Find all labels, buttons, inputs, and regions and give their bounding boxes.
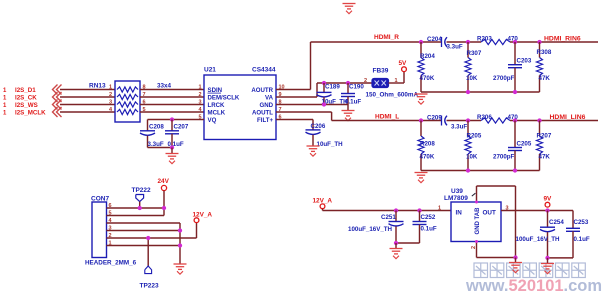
resistor R308 [537,42,552,92]
junction node R307 top [466,40,470,44]
U21 pin numbers [198,84,284,120]
capacitor C251 [348,211,404,244]
wire 12V_A to U39 pin 1 [323,209,452,211]
wire R206 to output [510,120,598,122]
net label HDMI_RIN6 [544,36,581,43]
svg-text:3.3uF: 3.3uF [447,44,463,51]
svg-text:R308: R308 [537,49,552,56]
power 12V_A (regulator input) [313,197,333,208]
junction trunk pin 3 [178,228,182,232]
junction node C203 top [513,40,517,44]
svg-text:3: 3 [198,99,201,105]
svg-text:I2S_CK: I2S_CK [15,94,37,101]
svg-text:24V: 24V [158,178,170,185]
power 12V_A (CON7) [193,212,213,223]
junction C251 top [394,208,398,212]
power 5V [399,60,408,72]
junction node R207 top [537,118,541,122]
svg-text:3.3uF: 3.3uF [148,141,164,148]
junction 9V / C254 top [545,208,549,212]
wire R203 to output [510,41,598,43]
svg-text:9V: 9V [544,195,553,202]
svg-text:R207: R207 [537,133,552,140]
IC U39 LM7809 [444,188,501,242]
svg-text:C207: C207 [174,123,189,130]
svg-text:I2S_D1: I2S_D1 [15,87,36,94]
junction C190 top [346,81,350,85]
svg-text:1: 1 [109,84,112,90]
svg-text:HDMI_L: HDMI_L [375,114,399,121]
wire CON7 pin 4 [107,222,181,224]
junction 24V line on pin 6 wire [162,206,166,210]
port I2S_WS [3,100,62,110]
port I2S_CK [3,92,62,102]
capacitor C209 [427,115,467,131]
svg-text:5V: 5V [399,60,408,67]
svg-text:GND: GND [259,102,273,109]
junction rail [466,168,470,172]
ground (filter rail) [415,173,428,183]
capacitor C204 [427,36,463,51]
junction node C205 top [513,118,517,122]
ground (C206) [307,146,320,156]
resistor R307 [465,42,482,92]
ground (filter rail) [415,94,428,104]
svg-text:LM7809: LM7809 [444,195,468,202]
svg-text:C208: C208 [149,123,164,130]
resistor R208 [418,121,435,171]
junction node R205 top [466,118,470,122]
resistor network RN13 [89,81,172,122]
svg-text:10K: 10K [466,153,478,160]
wire RN13 pin 7 to U21 pin 2 [140,96,204,98]
resistor R203 [477,36,518,45]
svg-text:HDMI_LIN6: HDMI_LIN6 [550,114,586,121]
svg-text:C205: C205 [517,141,532,148]
capacitor C206 [306,120,344,149]
svg-text:R205: R205 [467,133,482,140]
svg-text:2700pF: 2700pF [493,153,515,160]
svg-text:I2S_WS: I2S_WS [15,102,38,109]
wire ground trunk [179,223,181,264]
svg-text:HDMI_RIN6: HDMI_RIN6 [544,36,581,43]
svg-text:VQ: VQ [208,117,217,124]
net label HDMI_LIN6 [550,114,586,121]
ground (C251/C252) [390,243,403,259]
wire U39 pin 2 to ground [477,242,516,258]
svg-text:IN: IN [456,209,463,216]
IC U21 CS4344 [204,67,276,140]
junction on VQ wire [170,117,174,121]
wire U39 tab to ground [477,186,516,258]
capacitor C190 [341,83,364,105]
svg-text:TP223: TP223 [140,283,160,290]
net label HDMI_R [374,34,399,41]
svg-text:2: 2 [109,92,112,98]
wire AOUTR (U21 pin 10) to HDMI_R [276,42,421,90]
junction rail [513,90,517,94]
svg-text:www.520101.com: www.520101.com [465,277,602,293]
resistor R206 [477,114,518,123]
svg-text:0.1uF: 0.1uF [168,141,184,148]
svg-text:2700pF: 2700pF [493,75,515,82]
wire RN13 pin 6 to U21 pin 3 [140,104,204,106]
wire RN13 pin 5 to U21 pin 4 [140,111,204,113]
svg-text:OUT: OUT [483,209,496,216]
capacitor C254 [516,211,565,258]
junction input node R204 [419,40,423,44]
wire C204 to R203 [447,41,482,43]
junction C252 top [417,208,421,212]
svg-text:470K: 470K [420,75,435,82]
wire RN13 pin 8 to U21 pin 1 [140,89,204,91]
svg-text:GND TAB: GND TAB [475,207,481,235]
wire input node to C209 [421,120,442,122]
svg-text:R307: R307 [467,50,482,57]
junction C189 bottom [322,102,326,106]
svg-text:C209: C209 [427,115,442,122]
junction node R308 top [537,40,541,44]
wire VA (U21 pin 9) to filter rail [276,83,372,97]
junction C254 bottom [545,256,549,260]
svg-text:1: 1 [198,84,201,90]
svg-text:33x4: 33x4 [157,83,172,90]
svg-text:3: 3 [109,99,112,105]
ground (CON7) [174,264,187,274]
junction C207 bottom [170,145,174,149]
svg-text:C251: C251 [381,214,396,221]
power 9V [544,195,553,207]
svg-text:AOUTL: AOUTL [252,109,273,116]
ground (C254) [541,258,554,274]
FB39 pin numbers [364,78,398,84]
U39 pin numbers [438,193,509,249]
junction tab/pin2 ground node [513,255,517,259]
svg-text:MCLK: MCLK [208,109,226,116]
wire FB39 to 5V [389,72,405,84]
svg-text:C253: C253 [574,219,589,226]
svg-text:C190: C190 [349,84,364,91]
junction U39 pin 2 at box [475,240,478,243]
wire FILT+ (U21 pin 6) [276,119,313,121]
svg-text:2: 2 [364,78,367,84]
svg-text:R206: R206 [477,114,492,121]
svg-text:1: 1 [438,205,441,211]
ferrite bead FB39 [372,68,389,88]
wire CON7 pin 2 to 12V_A [107,223,197,238]
svg-text:FB39: FB39 [373,68,389,75]
svg-text:150_Ohm_600mA: 150_Ohm_600mA [366,92,419,99]
CON7 pin numbers [109,203,113,247]
power 24V [158,178,170,215]
wire C251-C252 bottoms [396,242,420,244]
wire C208-C207 bottoms [148,147,173,149]
svg-text:470K: 470K [420,153,435,160]
wire U39 pin 3 (OUT) [501,210,573,212]
wire I2S_MCLK to RN13 pin 4 [60,111,115,113]
svg-text:LRCK: LRCK [208,102,226,109]
port I2S_MCLK [3,107,62,117]
ground (U39) [509,258,522,273]
svg-text:HEADER_2MM_6: HEADER_2MM_6 [85,260,137,267]
net label HDMI_L [375,114,399,121]
svg-text:0.1uF: 0.1uF [421,226,437,233]
junction input node R208 [419,118,423,122]
svg-text:R208: R208 [420,141,435,148]
svg-text:AOUTR: AOUTR [251,87,273,94]
svg-text:TP222: TP222 [132,187,152,194]
svg-text:RN13: RN13 [89,83,106,90]
svg-text:CON7: CON7 [91,196,109,203]
junction rail [513,168,517,172]
capacitor C205 [493,121,532,171]
ground (C207/C208) [166,148,179,164]
wire input node to C204 [421,41,442,43]
svg-text:HDMI_R: HDMI_R [374,34,399,41]
svg-text:C206: C206 [311,123,326,130]
capacitor C208 [140,120,164,148]
capacitor C207 [165,120,189,148]
wire I2S_CK to RN13 pin 2 [60,96,115,98]
svg-text:47K: 47K [539,75,551,82]
wire GND (U21 pin 8) [276,104,348,106]
ground (U21 GND pin) [342,105,355,121]
connector CON7 HEADER_2MM_6 [85,196,137,267]
svg-text:12V_A: 12V_A [313,197,333,204]
svg-text:47K: 47K [539,153,551,160]
wire ground rail [421,91,540,93]
wire AOUTL (U21 pin 7) to HDMI_L [276,112,421,121]
capacitor C252 [413,211,437,244]
capacitor C203 [493,42,532,92]
test point TP223 [140,238,160,290]
resistor R204 [418,42,435,92]
svg-text:100uF_16V_TH: 100uF_16V_TH [516,236,561,243]
RN13 pin numbers [109,84,146,113]
svg-text:2: 2 [198,92,201,98]
svg-text:R203: R203 [477,36,492,43]
svg-text:C203: C203 [517,58,532,65]
svg-text:10uF_TH: 10uF_TH [317,141,344,148]
junction C189 top [322,81,326,85]
ground (top centre) [343,4,356,14]
wire C254-C253 bottoms [548,257,574,259]
svg-text:VA: VA [265,94,274,101]
wire CON7 pin 5 [107,215,165,217]
junction trunk pin 1 [178,243,182,247]
watermark [465,263,602,293]
svg-text:C204: C204 [427,36,442,43]
wire VQ (U21 pin 5) [148,119,205,121]
svg-text:DEM/SCLK: DEM/SCLK [208,94,240,101]
svg-text:FILT+: FILT+ [257,117,273,124]
svg-text:C252: C252 [421,214,436,221]
junction U39 tab at box [475,201,478,204]
wire CON7 pin 1 [107,245,181,247]
junction rail [466,90,470,94]
wire I2S_WS to RN13 pin 3 [60,104,115,106]
capacitor C189 [317,83,349,105]
wire CON7 pin 6 to 24V [107,207,165,209]
svg-text:C254: C254 [549,219,564,226]
svg-text:U39: U39 [451,188,463,195]
wire ground rail [421,170,540,172]
junction TP222 on pin 6 wire [138,206,142,210]
svg-text:10K: 10K [466,75,478,82]
svg-text:R204: R204 [420,53,435,60]
resistor R205 [465,121,482,171]
junction TP223 on pin 2 wire [146,236,150,240]
svg-text:C189: C189 [325,84,340,91]
wire CON7 pin 3 [107,230,181,232]
svg-text:U21: U21 [204,67,216,74]
resistor R207 [537,121,552,171]
capacitor C253 [566,211,590,258]
svg-text:100uF_16V_TH: 100uF_16V_TH [348,226,393,233]
junction C251 bottom [394,241,398,245]
wire I2S_D1 to RN13 pin 1 [60,89,115,91]
svg-text:0.1uF: 0.1uF [574,236,590,243]
value 150_Ohm_600mA [366,92,419,99]
wire C209 to R206 [447,120,482,122]
svg-text:3.3uF: 3.3uF [451,124,467,131]
test point TP222 [132,187,152,208]
port I2S_D1 [3,85,62,95]
svg-text:12V_A: 12V_A [193,212,213,219]
svg-text:CS4344: CS4344 [252,67,276,74]
svg-text:I2S_MCLK: I2S_MCLK [15,109,46,116]
